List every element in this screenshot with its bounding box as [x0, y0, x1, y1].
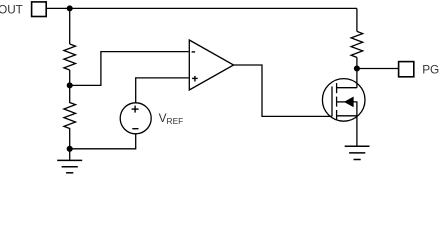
wire: Q1 drain up to PG node — [356, 69, 358, 88]
wire: Q1 source down to ground — [356, 116, 358, 147]
resistor R2 — [64, 85, 76, 148]
port OUT pin — [32, 2, 47, 17]
voltage source VREF — [120, 103, 151, 134]
ground (left) — [57, 160, 82, 172]
svg-text:VREF: VREF — [159, 111, 184, 126]
svg-text:PG: PG — [422, 62, 439, 76]
wire: R1 to feedback node — [69, 70, 71, 85]
junction: feedback node — [67, 83, 72, 88]
wire: op-amp output to Q1 gate — [234, 65, 332, 116]
junction: OUT node — [67, 6, 72, 11]
transistor Q1 (NMOS) — [322, 79, 365, 122]
wire: ground node to ground symbol — [69, 149, 71, 161]
wire: PG node to PG pin — [357, 68, 399, 70]
junction: PG node — [355, 66, 360, 71]
wire: R3 to PG node — [356, 57, 358, 68]
op-amp U1 — [189, 40, 233, 90]
wire: VREF positive terminal to op-amp noninverting input — [136, 78, 189, 103]
wire: OUT node down to R1 — [69, 8, 71, 44]
resistor R1 — [64, 44, 76, 70]
resistor R3 — [351, 31, 363, 57]
junction: ground node — [67, 146, 72, 151]
wire: top rail down to R3 — [356, 8, 358, 31]
wire: feedback node to op-amp inverting input — [70, 52, 189, 86]
ground (right) — [345, 146, 370, 159]
svg-text:OUT: OUT — [0, 3, 23, 16]
wire: ground node to VREF negative terminal — [70, 134, 136, 149]
wire: top rail from OUT pin to right branch — [47, 7, 357, 9]
port PG pin — [399, 62, 414, 77]
